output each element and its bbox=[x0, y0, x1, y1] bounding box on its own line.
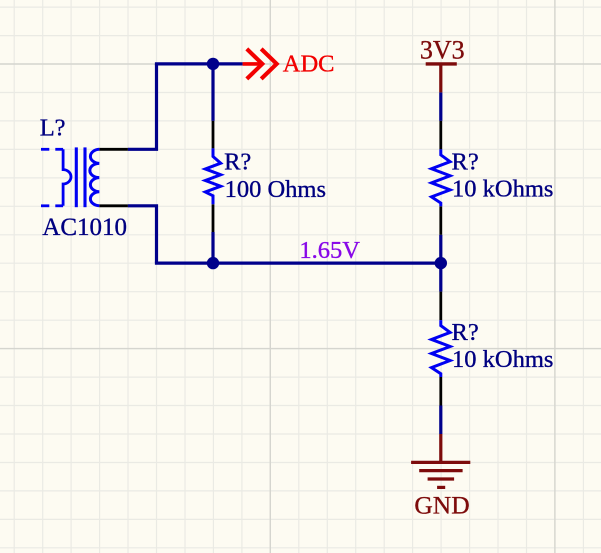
wire: L? top pin to node A (step up) bbox=[128, 64, 157, 149]
wire: lower R? (10 kOhms) to GND bbox=[439, 406, 442, 435]
svg-text:R?: R? bbox=[452, 148, 479, 175]
svg-text:10 kOhms: 10 kOhms bbox=[452, 175, 553, 202]
pin: L? secondary top bbox=[99, 148, 128, 151]
pin: L? secondary bottom bbox=[99, 204, 128, 207]
pin: R? (100 Ohms) pin 2 bbox=[212, 204, 215, 232]
wire: R? (100 Ohms) down to net 1.65V bbox=[211, 232, 214, 263]
svg-text:3V3: 3V3 bbox=[420, 35, 465, 64]
svg-text:10 kOhms: 10 kOhms bbox=[452, 346, 553, 373]
wire: net 1.65V horizontal bbox=[155, 262, 441, 265]
junction: net 1.65V right bbox=[435, 257, 447, 269]
port ADC arrow symbol bbox=[243, 49, 277, 79]
resistor R? value 10 kOhms (upper) bbox=[432, 149, 451, 206]
svg-text:GND: GND bbox=[414, 490, 469, 519]
pin: R? (100 Ohms) pin 1 bbox=[212, 121, 215, 148]
svg-text:1.65V: 1.65V bbox=[299, 237, 360, 264]
junction: net 1.65V left bbox=[207, 257, 219, 269]
svg-text:R?: R? bbox=[452, 319, 479, 346]
svg-text:AC1010: AC1010 bbox=[42, 214, 127, 241]
transformer L? core bars bbox=[75, 147, 78, 207]
wire: net 1.65V to lower R? (10 kOhms) bbox=[439, 263, 442, 292]
wire: L? bottom pin to net 1.65V (step down) bbox=[128, 206, 157, 263]
wire: node A horizontal to ADC port bbox=[155, 62, 243, 65]
power port 3V3 symbol bbox=[426, 64, 457, 93]
resistor R? value 100 Ohms bbox=[205, 148, 220, 204]
transformer L? primary winding bbox=[63, 149, 71, 206]
pin: upper R? (10 kOhms) pin 2 bbox=[439, 206, 442, 235]
pin: lower R? (10 kOhms) pin 2 bbox=[439, 377, 442, 406]
wire: 3V3 to upper R? (10 kOhms) bbox=[439, 92, 442, 121]
svg-text:100 Ohms: 100 Ohms bbox=[225, 176, 326, 203]
transformer L? primary dashed leads bbox=[41, 149, 63, 206]
svg-text:R?: R? bbox=[224, 149, 251, 176]
pin: lower R? (10 kOhms) pin 1 bbox=[439, 292, 442, 321]
transformer L? secondary coil bbox=[90, 149, 99, 206]
svg-text:L?: L? bbox=[40, 115, 66, 142]
pin: upper R? (10 kOhms) pin 1 bbox=[439, 121, 442, 149]
junction: node A at ADC tap bbox=[207, 58, 219, 70]
ground GND symbol bbox=[411, 434, 470, 487]
svg-text:ADC: ADC bbox=[283, 51, 335, 78]
wire: upper R? (10 kOhms) to net 1.65V bbox=[439, 235, 442, 263]
wire: node A down to R? (100 Ohms) bbox=[211, 64, 214, 121]
resistor R? value 10 kOhms (lower) bbox=[432, 320, 451, 377]
